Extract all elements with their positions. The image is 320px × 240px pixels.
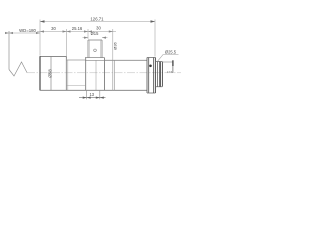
dimension 13 line bbox=[79, 97, 106, 99]
port inner line bbox=[90, 40, 101, 58]
body bottom line bbox=[40, 89, 147, 91]
svg-text:30: 30 bbox=[51, 26, 56, 31]
object plane line bbox=[8, 31, 10, 70]
neck internal bottom line bbox=[66, 84, 85, 86]
port tube bbox=[88, 40, 102, 58]
arrowheads 13 bbox=[83, 97, 104, 99]
extension line x88 bbox=[87, 29, 89, 39]
svg-text:Ø25.5: Ø25.5 bbox=[165, 49, 177, 54]
arrowheads 126.71 bbox=[40, 20, 155, 22]
arrowheads row bbox=[40, 30, 113, 32]
extension lines 13 bbox=[87, 91, 100, 100]
svg-text:Ø36: Ø36 bbox=[113, 41, 118, 49]
front barrel top bbox=[40, 55, 66, 57]
dimension row line 30 / 25.16 / 30 bbox=[37, 31, 116, 33]
flange right double line bbox=[154, 58, 156, 94]
housing inner vertical bbox=[95, 60, 97, 90]
c-mount end face bbox=[160, 62, 162, 87]
rear tube top bbox=[105, 59, 148, 61]
svg-text:30: 30 bbox=[96, 26, 101, 31]
neck top bbox=[66, 59, 85, 61]
extension line x66.5 bbox=[66, 29, 68, 59]
extension line x113.5 bbox=[112, 29, 114, 60]
svg-text:WD=180: WD=180 bbox=[19, 28, 36, 33]
front barrel right edge bbox=[65, 56, 67, 90]
front bezel ring line bbox=[50, 56, 52, 90]
front face dark bbox=[39, 56, 41, 90]
c-mount cylinder bbox=[155, 62, 162, 87]
image plane tick upper bbox=[172, 60, 174, 66]
housing body sides bbox=[86, 58, 105, 91]
set screw dot bbox=[149, 65, 152, 68]
flange top and bottom bbox=[147, 58, 155, 94]
flange left edge bbox=[147, 58, 149, 94]
svg-text:17.5: 17.5 bbox=[167, 70, 173, 74]
extension line x155 bbox=[154, 20, 156, 57]
svg-text:25.16: 25.16 bbox=[72, 26, 83, 31]
housing cap plate bbox=[85, 58, 105, 61]
svg-text:Ø15: Ø15 bbox=[91, 31, 99, 36]
port screw circle bbox=[94, 49, 97, 52]
front barrel right edge second line bbox=[67, 60, 69, 90]
svg-text:Ø58: Ø58 bbox=[48, 69, 53, 78]
wire WD dimension line bbox=[7, 32, 41, 34]
svg-text:13: 13 bbox=[90, 92, 95, 97]
arrowheads WD bbox=[5, 32, 40, 34]
dimension port width outside arrows bbox=[83, 37, 108, 39]
extension line x40 bbox=[39, 20, 41, 56]
flange focal distance line bbox=[162, 61, 172, 63]
rear joint ring bbox=[113, 60, 115, 90]
c-mount thread lines bbox=[157, 62, 159, 87]
break zigzag bbox=[9, 62, 27, 76]
svg-text:126.71: 126.71 bbox=[90, 16, 104, 21]
image plane tick lower bbox=[172, 66, 174, 73]
dimension 126.71 line bbox=[40, 21, 155, 23]
centerline bbox=[27, 72, 181, 74]
arrowheads port width bbox=[84, 37, 106, 39]
